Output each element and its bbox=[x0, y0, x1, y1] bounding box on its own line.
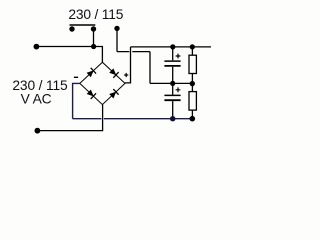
diode D1 upper-left bbox=[86, 68, 96, 78]
terminal dot AC2 bbox=[35, 128, 41, 134]
wire minus output navy bbox=[73, 83, 80, 118]
svg-text:230 / 115: 230 / 115 bbox=[68, 7, 123, 22]
junction node AC1 bbox=[91, 44, 96, 49]
label plus bridge bbox=[124, 73, 128, 77]
node C1-C2 midpoint bbox=[170, 81, 175, 86]
node C2 bottom bbox=[170, 116, 175, 121]
wire plus output up bbox=[125, 47, 131, 83]
node R1-R2 midpoint bbox=[190, 81, 195, 86]
capacitor C1 lead bottom bbox=[172, 67, 174, 84]
wire terminal2 down bbox=[93, 29, 95, 47]
diode D3 lower-left bbox=[86, 89, 96, 99]
node R1 top bbox=[190, 44, 195, 49]
terminal dot 3 bbox=[114, 26, 119, 31]
wire AC1 horizontal bbox=[36, 47, 102, 63]
capacitor C1 lead top bbox=[172, 47, 174, 60]
resistor R2 bbox=[191, 83, 193, 118]
capacitor C2 plates bbox=[164, 94, 180, 96]
capacitor C1 plus bbox=[176, 54, 181, 59]
wire terminal3 to midpoint bbox=[117, 52, 150, 84]
resistor R1 bbox=[191, 47, 193, 84]
terminal dot left AC1 bbox=[34, 44, 40, 50]
wire AC2 to bridge bottom bbox=[37, 105, 102, 131]
svg-text:V AC: V AC bbox=[21, 92, 52, 107]
capacitor C2 lead top bbox=[172, 83, 174, 94]
wire bottom rail navy bbox=[73, 118, 193, 120]
terminal dot 1 bbox=[69, 26, 74, 31]
primary tap link wire bbox=[70, 24, 96, 26]
node C1 top bbox=[170, 44, 175, 49]
wire terminal3 down bbox=[116, 28, 118, 51]
capacitor C2 plus bbox=[176, 87, 181, 92]
label minus bbox=[74, 76, 78, 78]
terminal dot 2 bbox=[91, 26, 96, 31]
diode D2 upper-right bbox=[109, 68, 119, 78]
capacitor C1 plates bbox=[164, 60, 180, 62]
bridge rectifier diamond bbox=[80, 62, 125, 104]
wire middle rail bbox=[150, 82, 192, 84]
node R2 bottom bbox=[190, 116, 196, 122]
capacitor C2 lead bottom bbox=[172, 101, 174, 119]
diode D4 lower-right bbox=[109, 89, 119, 99]
wire top rail bbox=[131, 46, 212, 48]
